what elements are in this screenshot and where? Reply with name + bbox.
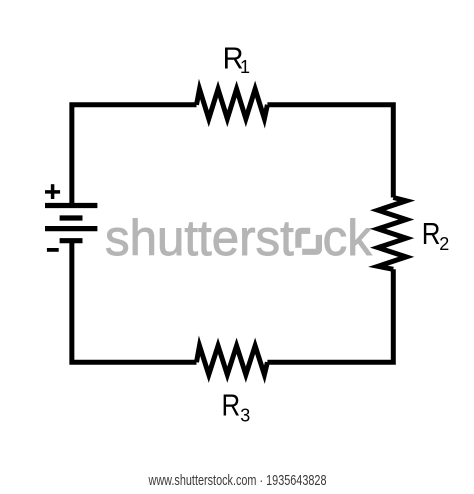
svg-text:1: 1 [240, 57, 250, 77]
resistor R2 [378, 198, 406, 270]
svg-text:shutterst: shutterst [105, 210, 294, 266]
svg-text:www.shutterstock.com · 1935643: www.shutterstock.com · 1935643828 [148, 472, 327, 489]
wire: top-right run (R1 to R2) [267, 105, 393, 198]
watermark shutterstock [105, 210, 372, 266]
label R1 [223, 42, 244, 76]
battery B1 plate 4 (short, -) [60, 238, 83, 243]
svg-text:3: 3 [240, 406, 250, 426]
label R2 [422, 216, 441, 250]
battery + polarity label [45, 184, 60, 199]
wire: bottom-left run (R3 to battery bottom) [72, 241, 197, 362]
svg-text:ck: ck [323, 210, 372, 266]
svg-text:R: R [422, 216, 441, 250]
wire: top-left run (battery top to R1) [72, 105, 197, 203]
battery B1 plate 2 (short) [60, 215, 83, 220]
svg-text:R: R [222, 387, 241, 421]
svg-text:2: 2 [439, 234, 449, 254]
watermark logo o piece 1 [298, 231, 310, 248]
label R3 [222, 387, 241, 421]
resistor R1 [197, 89, 268, 119]
wire: bottom-right run (R2 to R3) [267, 269, 393, 362]
battery B1 plate 1 (long, +) [45, 203, 97, 208]
battery B1 plate 3 (long) [45, 226, 97, 231]
resistor R3 [197, 346, 268, 375]
battery - polarity label [47, 248, 59, 252]
watermark logo o piece 2 [302, 235, 319, 252]
